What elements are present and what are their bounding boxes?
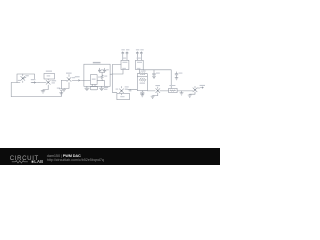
box T2 <box>136 55 144 70</box>
transistor Q1 <box>18 74 29 83</box>
wire pin left <box>84 80 91 82</box>
box Q <box>117 93 129 99</box>
logo diode block <box>32 161 34 163</box>
wire box M left <box>126 89 138 91</box>
ground G5 <box>151 94 158 99</box>
label Motor model <box>93 62 101 63</box>
wire T2 to right <box>143 70 171 89</box>
cluster knots <box>22 78 196 92</box>
IC bottom pins <box>92 84 95 86</box>
battery V1 <box>57 80 64 96</box>
cap symbol S3 <box>136 49 139 54</box>
label blocks right of P1 <box>104 87 108 88</box>
ground pin G4 below motor box <box>100 86 104 90</box>
cap Ca <box>152 70 159 79</box>
cap symbol S2 <box>126 49 129 54</box>
wire T2 bottom <box>138 70 140 73</box>
ground G7 <box>188 93 195 97</box>
box B2 <box>160 85 177 93</box>
cap Cb <box>175 72 182 80</box>
logo resistor squiggle <box>12 161 28 163</box>
cap + ground under box M <box>141 91 145 97</box>
footer bar <box>0 148 220 165</box>
ground pin G3 below motor box <box>85 86 89 90</box>
ground G1 <box>41 86 48 93</box>
motor model box <box>84 64 110 86</box>
svg-text:http://circuitlab.com/c/b52e5b: http://circuitlab.com/c/b52e5bqnd7q <box>47 158 104 162</box>
transistor Q4 <box>116 86 129 95</box>
feedback element on box M <box>137 71 147 77</box>
transistor Q5 <box>147 85 160 94</box>
resistor R1 <box>100 72 108 80</box>
ammeter arrow AM1 <box>31 79 36 83</box>
wire top right entry <box>110 65 121 93</box>
wire upper loop left <box>17 74 35 83</box>
probe box P1 below motor box <box>90 87 97 90</box>
box M <box>137 77 147 91</box>
IC U1 <box>90 75 97 85</box>
cap symbol S1 <box>121 49 124 54</box>
ground G6 <box>180 91 183 95</box>
ammeter arrow AM2 <box>72 76 84 81</box>
wire to op stage <box>61 79 66 81</box>
IC right pin wire <box>97 81 105 87</box>
transistor Q3 <box>66 73 75 84</box>
box T1 <box>121 55 129 70</box>
capacitor C2 <box>103 68 108 72</box>
ground G2 <box>62 84 69 92</box>
transistor Q6 <box>193 85 205 93</box>
transistor Q2 <box>39 79 56 86</box>
cap symbol S4 <box>140 49 144 54</box>
box B1 <box>44 71 55 79</box>
wire to Q6 <box>177 90 193 92</box>
svg-text:LAB: LAB <box>34 159 43 164</box>
capacitor C1 <box>98 68 103 72</box>
wire T1 bottom <box>112 70 123 75</box>
wire outer loop left <box>11 83 61 97</box>
